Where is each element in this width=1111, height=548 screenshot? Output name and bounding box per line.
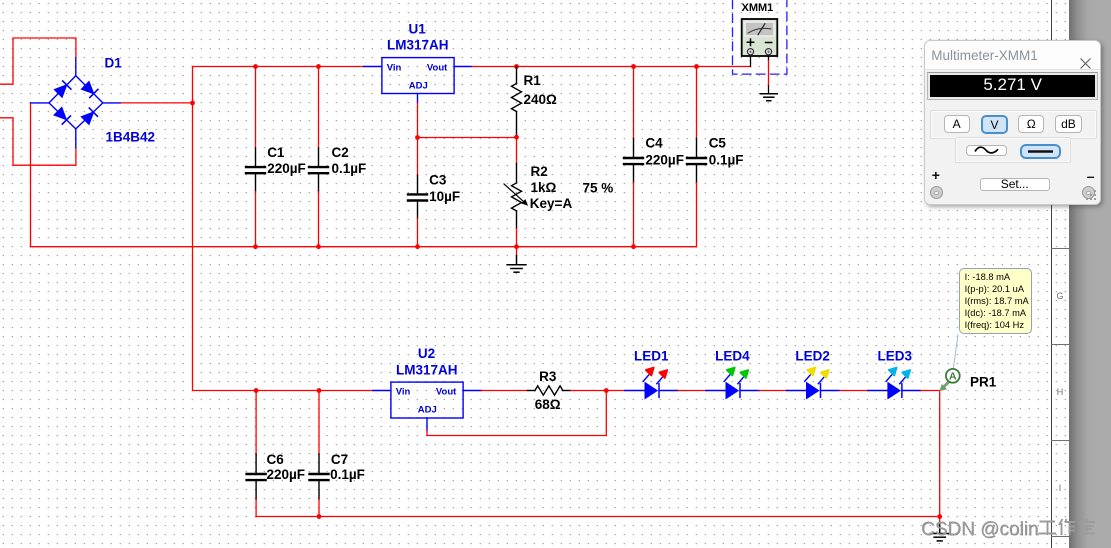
panel minus sign [1087,168,1095,184]
wire bottom return rail [256,516,940,518]
R2 wiper arrowhead [521,199,528,206]
U2 pin ADJ [426,418,428,431]
svg-text:240Ω: 240Ω [524,92,558,107]
LED2 [787,368,840,399]
XMM1 icon screen [745,22,774,36]
svg-text:C1: C1 [267,145,285,160]
junction C4 top [631,64,636,69]
LED4 [706,368,759,399]
svg-text:10µF: 10µF [429,189,460,204]
wire LED4 to LED2 [759,390,787,392]
bridge diode bottom-left [54,107,70,124]
svg-text:Vin: Vin [387,63,402,74]
junction ADJ node [415,135,420,140]
svg-text:LED3: LED3 [878,349,913,364]
svg-text:C4: C4 [645,136,663,151]
junction C6 top [254,388,259,393]
junction C7 bottom [317,514,322,519]
regulator U2 box [391,382,463,418]
multimeter XMM1 icon body [742,19,778,56]
capacitor C5 [687,67,706,247]
wire LED3 to probe node [921,390,940,392]
svg-text:A: A [949,371,957,383]
svg-text:220µF: 220µF [645,152,684,167]
wire C3 to ground rail [417,218,419,246]
junction C2 bottom [316,244,321,249]
svg-text:Key=A: Key=A [530,196,573,211]
U1 pin Vout [454,66,472,68]
junction R2 bottom [514,244,519,249]
LED3 [868,368,921,399]
wire LED2 to LED3 [840,390,868,392]
U2 pin Vin [373,390,391,392]
svg-text:ADJ: ADJ [409,81,428,92]
XMM1 terminal + [747,49,753,55]
wire U2 Vout to R3 [481,390,527,392]
junction R1 bottom / ADJ net [514,135,519,140]
wire XMM1 negative red segment [768,61,770,85]
junction C5 top [694,64,699,69]
svg-text:R3: R3 [539,369,557,384]
sheet zone column [1051,0,1070,548]
Set button [980,178,1050,191]
resistor R1 [512,67,522,138]
button DC (selected) [1020,144,1061,159]
potentiometer R2 [504,164,526,229]
svg-text:0.1µF: 0.1µF [330,467,365,482]
wire ADJ feedback (U2) [427,391,606,436]
junction R3 output [604,388,609,393]
regulator U1 box [382,58,454,94]
svg-text:C7: C7 [331,452,348,467]
terminal + [930,186,944,200]
svg-text:U1: U1 [409,22,427,37]
button V (selected) [981,115,1008,134]
terminal - [1082,186,1096,200]
capacitor C1 [246,67,265,247]
svg-text:Vin: Vin [396,387,411,398]
svg-text:1kΩ: 1kΩ [531,180,557,195]
junction C2 top [316,64,321,69]
XMM1 plus sign [747,39,753,45]
wire ADJ node to R1 bottom [418,137,517,163]
XMM1 terminal - [765,49,771,55]
ground below R2 [507,256,526,273]
capacitor C7 [310,391,329,517]
bridge diode bottom-right [81,108,97,125]
ground bottom right [930,525,949,541]
junction return rail [937,514,942,519]
svg-text:68Ω: 68Ω [535,397,561,412]
svg-text:ADJ: ADJ [418,405,437,416]
capacitor C6 [247,391,266,517]
panel plus sign [932,167,940,183]
svg-text:220µF: 220µF [267,467,306,482]
multimeter XMM1 selection box [733,0,787,74]
wire bridge negative to ground rail [30,103,32,247]
wire ADJ node to C3 [417,138,419,176]
button A [944,115,970,133]
svg-text:1B4B42: 1B4B42 [106,130,156,145]
current probe PR1 arrow [944,381,950,387]
wire LED1 to LED4 [678,390,706,392]
svg-text:Vout: Vout [436,387,457,398]
wire bottom ground rail [31,246,697,248]
svg-text:C2: C2 [332,145,349,160]
wire R2 to ground rail [516,229,518,247]
svg-text:C6: C6 [267,452,285,467]
XMM1 screen needle [758,24,765,35]
wire XMM1 positive lead [750,55,752,67]
wire U1 Vout rail [472,66,751,68]
ground below XMM1 [760,94,777,101]
XMM1 minus sign [766,42,772,44]
junction C4 bottom [631,244,636,249]
svg-text:LED1: LED1 [634,349,669,364]
panel display bezel [927,72,1099,100]
wire AC input top loop [1,38,76,84]
button sine [966,145,1007,157]
wire top rail to U1 Vin [193,66,364,68]
wire stub to ground (R2) [516,247,518,256]
capacitor C4 [624,67,643,247]
svg-text:C5: C5 [709,136,727,151]
wire bridge positive output [120,102,193,104]
svg-text:LM317AH: LM317AH [396,363,458,378]
svg-text:LM317AH: LM317AH [387,38,449,53]
svg-text:R2: R2 [531,164,548,179]
probe measurement tooltip [959,268,1032,335]
wire LED return down [939,391,941,517]
resize grip [1081,185,1099,203]
junction C3 bottom [415,244,420,249]
svg-text:PR1: PR1 [970,374,997,389]
junction C1 top [253,64,258,69]
probe callout connector [953,335,958,369]
junction C1 bottom [253,244,258,249]
bridge diode top-left [54,81,71,97]
junction C7 top [317,388,322,393]
svg-text:LED4: LED4 [715,349,750,364]
svg-text:75 %: 75 % [583,181,614,196]
capacitor C3 [408,175,427,218]
resistor R3 [528,386,571,395]
XMM1 screen arc [748,28,771,33]
junction R1 top [514,64,519,69]
svg-text:0.1µF: 0.1µF [709,152,744,167]
button dB [1055,115,1081,133]
svg-text:Vout: Vout [427,63,448,74]
wire AC input bottom loop [1,118,76,165]
wire R3 to LED1 [571,390,626,392]
panel title bar [925,41,1100,70]
panel signal group [955,137,1071,163]
U1 pin Vin [364,66,382,68]
U1 pin ADJ [417,94,419,103]
watermark [921,517,1096,541]
button Ω [1018,115,1044,133]
wire XMM1 negative lead [768,55,770,94]
svg-text:0.1µF: 0.1µF [332,161,367,176]
svg-text:XMM1: XMM1 [742,2,774,14]
current probe PR1 circle [946,369,960,383]
svg-text:U2: U2 [418,346,435,361]
bridge rectifier D1 [31,58,121,148]
LED1 [625,368,678,399]
bridge diode top-right [81,81,98,97]
svg-text:R1: R1 [524,73,542,88]
capacitor C2 [309,67,328,247]
U2 pin Vout [463,390,481,392]
junction bridge output node [190,101,195,106]
wire stub to bottom ground [939,517,941,526]
wire ADJ pin down [417,103,419,138]
panel mode group [930,110,1097,139]
svg-text:220µF: 220µF [267,161,306,176]
wire main vertical bus to U2 [193,67,373,391]
multimeter panel window [924,40,1101,206]
svg-text:C3: C3 [429,173,447,188]
svg-text:D1: D1 [105,56,123,71]
svg-text:LED2: LED2 [795,349,830,364]
